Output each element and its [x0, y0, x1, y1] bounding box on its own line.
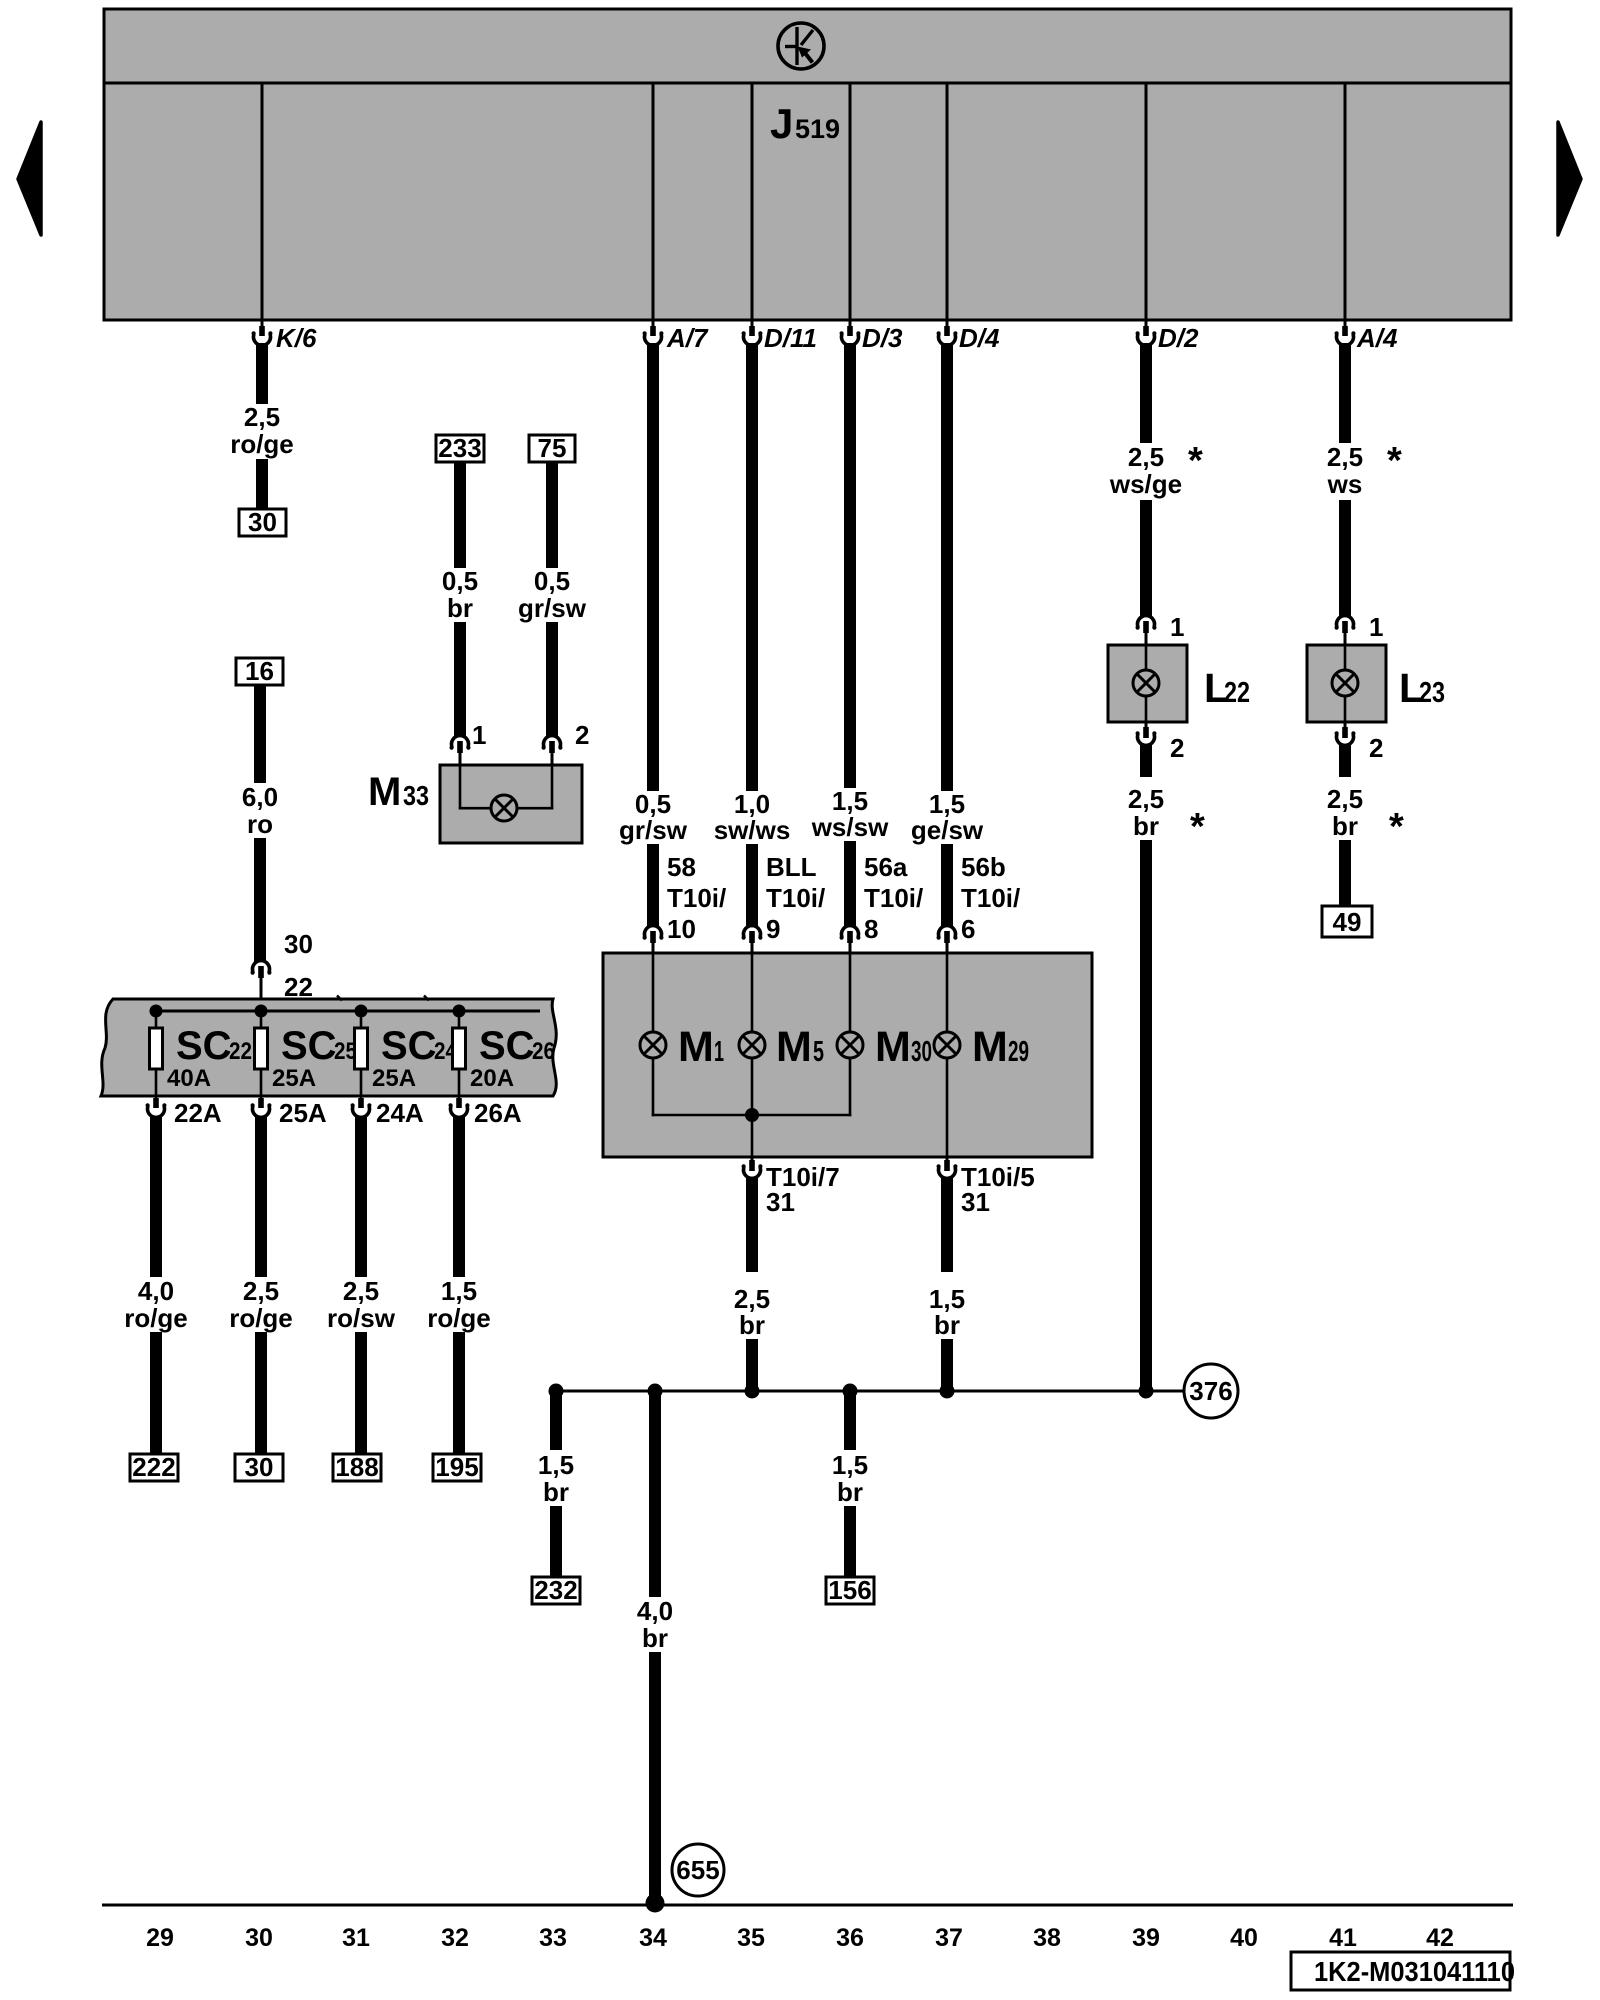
node 75 (connection) [529, 433, 575, 463]
svg-text:23: 23 [1419, 677, 1445, 709]
wire 1,5 ro/ge (lower segment) [453, 1332, 465, 1454]
wire 1,5 br (lower segment) [550, 1506, 562, 1577]
svg-text:16: 16 [245, 656, 274, 686]
svg-text:29: 29 [1008, 1036, 1029, 1068]
label M33 [368, 770, 429, 814]
svg-text:SC: SC [176, 1024, 232, 1068]
control unit J519 body (onboard supply control unit, gray band) [104, 9, 1511, 320]
svg-text:ws/sw: ws/sw [811, 812, 889, 842]
fuse SC25 25A [255, 1011, 358, 1100]
svg-text:9: 9 [766, 914, 780, 944]
wire label 1,5 br [538, 1450, 574, 1507]
svg-text:br: br [447, 593, 473, 623]
label M30 [875, 1023, 932, 1071]
junction on bus at SC25 [255, 1005, 268, 1018]
label M29 [972, 1023, 1029, 1071]
fuse holder internal bus (terminal 30 rail) [156, 1010, 540, 1013]
ground point junction at bottom rail [646, 1894, 665, 1913]
svg-text:32: 32 [441, 1924, 469, 1952]
svg-text:br: br [739, 1310, 765, 1340]
wire label 4,0 br [637, 1596, 673, 1653]
svg-text:31: 31 [766, 1187, 795, 1217]
svg-text:2,5: 2,5 [1327, 784, 1363, 814]
node 49 (ground connection) [1322, 906, 1372, 937]
svg-text:4,0: 4,0 [138, 1276, 174, 1306]
wire 4,0 ro/ge (lower segment) [150, 1332, 162, 1454]
connector pin D/2 under J519 [1136, 320, 1200, 353]
wire label 2,5 br with asterisk [1327, 784, 1404, 848]
svg-text:T10i/: T10i/ [667, 883, 726, 913]
svg-text:26: 26 [532, 1038, 555, 1065]
svg-text:30: 30 [248, 507, 277, 537]
connector pin D/3 under J519 [840, 320, 904, 353]
J519 internal lead, pin A/7 [652, 84, 655, 319]
connector 22A under fuse SC22 [146, 1098, 222, 1128]
node 30 (positive connection 30) [239, 507, 286, 537]
node 16 (plus connection) [236, 656, 283, 686]
svg-text:br: br [1133, 811, 1159, 841]
wire label 1,5 ws/sw [811, 786, 889, 842]
connector pin K/6 under J519 [252, 320, 318, 353]
svg-text:376: 376 [1189, 1376, 1232, 1406]
svg-text:ro/ge: ro/ge [124, 1303, 188, 1333]
wire 1,5 br to node 232 (upper segment) [550, 1393, 562, 1450]
svg-text:J: J [770, 100, 793, 147]
wire 2,5 br from L23 (upper segment) [1339, 744, 1351, 777]
svg-text:ro/ge: ro/ge [230, 429, 294, 459]
svg-text:39: 39 [1132, 1924, 1160, 1952]
wire label 2,5 ro/ge [229, 1276, 293, 1333]
J519 internal lead, pin D/4 [946, 84, 949, 319]
svg-text:2,5: 2,5 [1128, 784, 1164, 814]
svg-text:ro/ge: ro/ge [427, 1303, 491, 1333]
node 232 [532, 1575, 580, 1605]
J519 internal lead, pin D/3 [849, 84, 852, 319]
wire label 0,5 br [442, 566, 478, 623]
svg-text:34: 34 [639, 1924, 667, 1952]
right tail light L23 (gray box) [1307, 645, 1386, 722]
svg-text:ws: ws [1327, 469, 1363, 499]
wire label 1,5 ro/ge [427, 1276, 491, 1333]
svg-text:519: 519 [795, 114, 840, 144]
svg-text:T10i/: T10i/ [864, 883, 923, 913]
node 233 (connection in wiring harness) [436, 433, 484, 463]
label J519 [770, 100, 840, 147]
connector BLL T10i/9 [742, 852, 826, 953]
svg-text:25A: 25A [372, 1065, 416, 1092]
svg-text:A/4: A/4 [1356, 323, 1398, 353]
svg-text:br: br [543, 1477, 569, 1507]
connector pin A/7 under J519 [643, 320, 710, 353]
svg-text:26A: 26A [474, 1098, 522, 1128]
ground node 655 (circle) [672, 1844, 724, 1896]
J519 internal lead, pin A/4 [1344, 84, 1347, 319]
svg-text:31: 31 [961, 1187, 990, 1217]
svg-text:1,5: 1,5 [832, 1450, 868, 1480]
svg-text:22: 22 [229, 1038, 252, 1065]
label L23 [1399, 665, 1445, 711]
svg-text:20A: 20A [470, 1065, 514, 1092]
connector pin 1 of L23 [1335, 612, 1384, 645]
wire 2,5 br from L22 (upper segment) [1140, 744, 1152, 777]
wire 2,5 br under T10i/7 (upper segment) [746, 1177, 758, 1272]
junction track37 on ground rail [940, 1384, 955, 1399]
J519 internal lead, pin D/11 [751, 84, 754, 319]
headlight unit box (gray, M1 M5 M30 M29) [603, 953, 1092, 1157]
svg-text:ro: ro [247, 809, 273, 839]
svg-text:10: 10 [667, 914, 696, 944]
lead below M30 to ground link [849, 1058, 852, 1116]
svg-text:*: * [1190, 806, 1205, 848]
lead to bulb M30 [849, 953, 852, 1032]
svg-text:ro/ge: ro/ge [229, 1303, 293, 1333]
svg-text:gr/sw: gr/sw [518, 593, 587, 623]
label L22 [1204, 665, 1250, 711]
svg-text:sw/ws: sw/ws [714, 815, 791, 845]
connector pin A/4 under J519 [1335, 320, 1399, 353]
svg-text:30: 30 [284, 929, 313, 959]
wire label 2,5 br with asterisk [1128, 784, 1205, 848]
svg-text:156: 156 [828, 1575, 871, 1605]
svg-text:38: 38 [1033, 1924, 1061, 1952]
svg-text:M: M [875, 1023, 911, 1071]
wire 1,5 ge/sw (lower segment) [941, 844, 953, 927]
node 30 (lower) [235, 1452, 283, 1482]
connector 25A under fuse SC25 [251, 1098, 327, 1128]
glove box lamp M33 (gray box with bulb) [440, 765, 582, 843]
svg-text:*: * [1387, 440, 1402, 482]
wire 0,5 gr/sw (lower segment) [647, 844, 659, 927]
wire 1,5 ws/sw (lower segment) [844, 841, 856, 927]
svg-text:41: 41 [1329, 1924, 1357, 1952]
svg-text:gr/sw: gr/sw [619, 815, 688, 845]
svg-text:29: 29 [146, 1924, 174, 1952]
wire 1,5 br (lower segment) [941, 1339, 953, 1388]
junction on bus at SC26 [453, 1005, 466, 1018]
connector T10i/7 under headlight box [742, 1157, 840, 1217]
wire 2,5 ro/ge from SC25 (upper segment) [255, 1116, 267, 1277]
wire 2,5 br from L23 down to node 49 [1339, 840, 1351, 906]
svg-text:188: 188 [335, 1452, 378, 1482]
ground rail wire to node 376 [556, 1390, 1184, 1393]
svg-text:M: M [368, 770, 401, 814]
connector T10i/5 under headlight box [937, 1157, 1035, 1217]
wire label 6,0 ro [242, 782, 278, 839]
svg-text:1K2-M031041110: 1K2-M031041110 [1314, 1956, 1515, 1987]
node 222 [130, 1452, 178, 1482]
svg-text:M: M [776, 1023, 812, 1071]
wire label 2,5 ws with asterisk [1327, 440, 1402, 499]
wire label 2,5 br [734, 1284, 770, 1340]
wire 2,5 br from L22 down to ground rail [1140, 840, 1152, 1388]
diagram code box 1K2-M031041110 [1291, 1952, 1515, 1990]
junction on bus at SC24 [355, 1005, 368, 1018]
svg-text:SC: SC [479, 1024, 535, 1068]
junction track34 on ground rail [648, 1384, 663, 1399]
ground node 376 (circle) [1184, 1364, 1238, 1418]
wire 2,5 ws (lower segment) [1339, 500, 1351, 617]
svg-text:D/2: D/2 [1158, 323, 1199, 353]
svg-text:D/11: D/11 [764, 323, 817, 353]
svg-text:br: br [1332, 811, 1358, 841]
wire 6,0 ro (lower segment) [254, 838, 266, 962]
J519 internal lead, pin K/6 [261, 84, 264, 319]
svg-text:K/6: K/6 [276, 323, 317, 353]
wire label 1,0 sw/ws [714, 789, 791, 845]
svg-text:30: 30 [245, 1924, 273, 1952]
svg-text:8: 8 [864, 914, 878, 944]
bottom rail (track baseline) [102, 1904, 1513, 1907]
connector 56b T10i/6 [937, 852, 1021, 953]
svg-text:24A: 24A [376, 1098, 424, 1128]
junction on bus at SC22 [150, 1005, 163, 1018]
svg-text:br: br [934, 1310, 960, 1340]
wire label 0,5 gr/sw [518, 566, 587, 623]
svg-text:M: M [678, 1023, 714, 1071]
svg-text:40A: 40A [167, 1065, 211, 1092]
wire label 2,5 ws/ge with asterisk [1109, 440, 1203, 499]
svg-text:42: 42 [1426, 1924, 1454, 1952]
wire 2,5 br (lower segment) [746, 1339, 758, 1388]
connector 26A under fuse SC26 [449, 1098, 522, 1128]
wire 1,5 br under T10i/5 (upper segment) [941, 1177, 953, 1272]
svg-text:22A: 22A [174, 1098, 222, 1128]
connector 58 T10i/10 [643, 852, 727, 953]
svg-text:33: 33 [539, 1924, 567, 1952]
left tail light L22 (gray box) [1108, 645, 1187, 722]
wire 1,0 sw/ws (lower segment) [746, 844, 758, 927]
svg-text:22: 22 [1224, 677, 1250, 709]
svg-text:D/3: D/3 [862, 323, 903, 353]
wire 4,0 br to ground (upper segment) [649, 1393, 661, 1597]
bulb M30 (high beam) [837, 1032, 863, 1058]
wire 2,5 ro/ge (lower segment) [256, 459, 268, 510]
fuse SC22 40A [150, 1011, 253, 1100]
lead to bulb M1 [652, 953, 655, 1032]
lead to bulb M29 [946, 953, 949, 1032]
svg-text:2: 2 [575, 720, 589, 750]
connector pin 1 of L22 [1136, 612, 1185, 645]
svg-text:1: 1 [714, 1036, 724, 1068]
wire 0,5 br from node 233 (upper segment) [454, 462, 466, 568]
svg-text:6: 6 [961, 914, 975, 944]
svg-text:1: 1 [1369, 612, 1383, 642]
wire 2,5 ws from A/4 (upper segment) [1339, 343, 1351, 443]
fuse holder (torn-edge gray panel with SC fuses) [101, 996, 556, 1097]
connector pin 2 of L23 [1335, 722, 1384, 763]
svg-text:ro/sw: ro/sw [327, 1303, 396, 1333]
connector 30/22 into fuse holder [251, 929, 313, 1011]
wire 1,5 br to node 156 (upper segment) [844, 1393, 856, 1450]
bulb symbol of M33 [491, 795, 517, 821]
svg-text:37: 37 [935, 1924, 963, 1952]
svg-text:br: br [642, 1623, 668, 1653]
svg-text:58: 58 [667, 852, 696, 882]
wire 2,5 ro/sw from SC24 (upper segment) [355, 1116, 367, 1277]
svg-text:75: 75 [538, 433, 567, 463]
wire 0,5 br (lower segment) [454, 622, 466, 737]
lead to bulb M5 [751, 953, 754, 1032]
svg-text:2,5: 2,5 [1327, 442, 1363, 472]
svg-text:195: 195 [435, 1452, 478, 1482]
svg-text:M: M [972, 1023, 1008, 1071]
wire 4,0 br (lower segment to ground point) [649, 1652, 661, 1901]
svg-text:2,5: 2,5 [1128, 442, 1164, 472]
svg-text:233: 233 [438, 433, 481, 463]
connector 24A under fuse SC24 [351, 1098, 424, 1128]
svg-text:6,0: 6,0 [242, 782, 278, 812]
svg-text:0,5: 0,5 [534, 566, 570, 596]
connector pin 1 of M33 [450, 720, 487, 765]
lead below M5 through junction to box pin [751, 1058, 754, 1157]
svg-text:T10i/: T10i/ [766, 883, 825, 913]
previous-page arrow (left margin) [18, 122, 41, 235]
fuse SC24 25A [355, 1011, 458, 1100]
wire label 1,5 br [832, 1450, 868, 1507]
connector pin D/11 under J519 [742, 320, 818, 353]
bulb symbol of L23 [1332, 670, 1358, 696]
svg-text:ws/ge: ws/ge [1109, 469, 1182, 499]
wire 1,5 ge/sw from D/4 (upper segment) [941, 343, 953, 791]
svg-text:2,5: 2,5 [243, 1276, 279, 1306]
wire 0,5 gr/sw (lower segment) [546, 622, 558, 737]
wire 2,5 ro/sw (lower segment) [355, 1332, 367, 1454]
svg-text:2,5: 2,5 [343, 1276, 379, 1306]
wire 2,5 ws/ge (lower segment) [1140, 500, 1152, 617]
wire label 2,5 ro/sw [327, 1276, 396, 1333]
wire 1,5 ws/sw from D/3 (upper segment) [844, 343, 856, 788]
svg-text:655: 655 [676, 1855, 719, 1885]
wire label 2,5 ro/ge [230, 402, 294, 459]
wire 1,0 sw/ws from D/11 (upper segment) [746, 343, 758, 791]
wire 6,0 ro (upper segment) [254, 685, 266, 783]
svg-text:BLL: BLL [766, 852, 817, 882]
bulb symbol of L22 [1133, 670, 1159, 696]
svg-text:D/4: D/4 [959, 323, 1000, 353]
bulb M29 (daytime running light) [934, 1032, 960, 1058]
svg-text:31: 31 [342, 1924, 370, 1952]
svg-text:222: 222 [132, 1452, 175, 1482]
node 195 [433, 1452, 481, 1482]
svg-text:1,5: 1,5 [441, 1276, 477, 1306]
bulb M5 (low beam) [739, 1032, 765, 1058]
next-page arrow (right margin) [1558, 122, 1581, 235]
wire label 1,5 br [929, 1284, 965, 1340]
svg-text:*: * [1389, 806, 1404, 848]
svg-text:1,5: 1,5 [538, 1450, 574, 1480]
wire 0,5 gr/sw from node 75 (upper segment) [546, 462, 558, 568]
wire 0,5 gr/sw from A/7 (upper segment) [647, 343, 659, 791]
track numbers 29-42 [146, 1924, 1454, 1952]
svg-text:1: 1 [472, 720, 486, 750]
svg-text:30: 30 [245, 1452, 274, 1482]
bulb M1 (side light) [640, 1032, 666, 1058]
svg-text:30: 30 [911, 1036, 932, 1068]
svg-text:35: 35 [737, 1924, 765, 1952]
fuse SC26 20A [453, 1011, 556, 1100]
node 188 [333, 1452, 381, 1482]
junction on D/11 lead [745, 1108, 759, 1122]
wire label 1,5 ge/sw [911, 789, 984, 845]
connector pin 2 of M33 [542, 720, 590, 765]
wire 4,0 ro/ge from SC22 (upper segment) [150, 1116, 162, 1277]
label M1 [678, 1023, 724, 1071]
svg-text:2: 2 [1170, 733, 1184, 763]
terminal symbol (circled arrow icon) in J519 top strip [778, 23, 824, 69]
svg-text:25A: 25A [279, 1098, 327, 1128]
junction track33 on ground rail [549, 1384, 564, 1399]
svg-text:36: 36 [836, 1924, 864, 1952]
svg-text:33: 33 [403, 780, 429, 811]
connector pin 2 of L22 [1136, 722, 1185, 763]
svg-text:2: 2 [1369, 733, 1383, 763]
svg-text:1: 1 [1170, 612, 1184, 642]
svg-text:5: 5 [813, 1036, 824, 1068]
svg-text:49: 49 [1333, 907, 1362, 937]
svg-text:4,0: 4,0 [637, 1596, 673, 1626]
svg-text:2,5: 2,5 [244, 402, 280, 432]
wire 2,5 ro/ge from K/6 (upper segment) [256, 343, 268, 404]
wire 2,5 ws/ge from D/2 (upper segment) [1140, 343, 1152, 443]
svg-text:25A: 25A [272, 1065, 316, 1092]
lead below M1 to ground link [652, 1058, 655, 1116]
svg-text:40: 40 [1230, 1924, 1258, 1952]
junction track35 on ground rail [745, 1384, 760, 1399]
svg-text:232: 232 [534, 1575, 577, 1605]
svg-text:SC: SC [281, 1024, 337, 1068]
svg-text:br: br [837, 1477, 863, 1507]
wire 2,5 ro/ge (lower segment) [255, 1332, 267, 1454]
node 156 [826, 1575, 874, 1605]
svg-text:56b: 56b [961, 852, 1006, 882]
junction track39 on ground rail [1139, 1384, 1154, 1399]
wire 1,5 br (lower segment) [844, 1506, 856, 1577]
svg-text:0,5: 0,5 [442, 566, 478, 596]
label M5 [776, 1023, 824, 1071]
connector pin D/4 under J519 [937, 320, 1001, 353]
J519 internal lead, pin D/2 [1145, 84, 1148, 319]
svg-text:SC: SC [381, 1024, 437, 1068]
svg-text:T10i/: T10i/ [961, 883, 1020, 913]
svg-text:ge/sw: ge/sw [911, 815, 984, 845]
wire 1,5 ro/ge from SC26 (upper segment) [453, 1116, 465, 1277]
lead below M29 to box pin [946, 1058, 949, 1157]
wire label 0,5 gr/sw [619, 789, 688, 845]
svg-text:56a: 56a [864, 852, 908, 882]
svg-text:A/7: A/7 [666, 323, 709, 353]
svg-text:*: * [1188, 440, 1203, 482]
connector 56a T10i/8 [840, 852, 924, 953]
junction track36 on ground rail [843, 1384, 858, 1399]
internal ground link wire M1-M30 [652, 1114, 852, 1117]
wire label 4,0 ro/ge [124, 1276, 188, 1333]
